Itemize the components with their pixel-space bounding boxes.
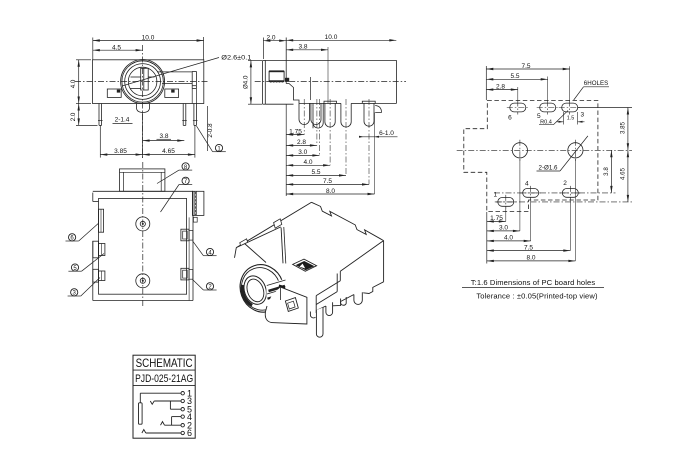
svg-text:Tolerance : ±0.05(Printed-to: Tolerance : ±0.05(Printed-top view) <box>476 292 598 301</box>
svg-text:Ø2.6±0.1: Ø2.6±0.1 <box>221 55 252 62</box>
svg-text:Ø4.0: Ø4.0 <box>242 75 249 89</box>
svg-text:2-1.4: 2-1.4 <box>115 117 130 124</box>
svg-text:5.5: 5.5 <box>311 169 320 176</box>
svg-text:T:1.6 Dimensions of PC boa: T:1.6 Dimensions of PC board holes <box>471 278 596 287</box>
svg-text:5.5: 5.5 <box>510 73 519 80</box>
svg-text:1.5: 1.5 <box>567 116 575 122</box>
svg-text:2.0: 2.0 <box>266 34 275 41</box>
svg-text:3.85: 3.85 <box>620 121 627 134</box>
svg-text:2-0.8: 2-0.8 <box>207 123 214 138</box>
svg-text:7.5: 7.5 <box>521 63 530 70</box>
svg-text:3.0: 3.0 <box>298 149 307 156</box>
svg-text:1.75: 1.75 <box>289 128 302 135</box>
svg-text:3.8: 3.8 <box>159 133 168 140</box>
svg-text:10.0: 10.0 <box>325 34 338 41</box>
svg-text:6-1.0: 6-1.0 <box>379 130 394 137</box>
svg-text:4.0: 4.0 <box>70 79 77 88</box>
svg-text:2: 2 <box>563 180 567 187</box>
svg-text:SCHEMATIC: SCHEMATIC <box>136 356 193 370</box>
svg-text:3.0: 3.0 <box>499 225 508 232</box>
svg-text:2.8: 2.8 <box>496 84 505 91</box>
svg-text:4.65: 4.65 <box>162 148 175 155</box>
svg-text:7.5: 7.5 <box>323 178 332 185</box>
svg-text:3.85: 3.85 <box>114 148 127 155</box>
svg-text:10.0: 10.0 <box>142 35 155 42</box>
svg-text:2.8: 2.8 <box>297 139 306 146</box>
svg-text:4: 4 <box>525 181 529 188</box>
svg-text:2-Ø1.6: 2-Ø1.6 <box>539 164 558 171</box>
svg-text:6HOLES: 6HOLES <box>584 80 608 87</box>
svg-text:3.8: 3.8 <box>603 167 610 176</box>
svg-text:2.0: 2.0 <box>70 112 77 121</box>
svg-text:4.65: 4.65 <box>620 167 627 180</box>
svg-text:8.0: 8.0 <box>526 255 535 262</box>
svg-text:4.0: 4.0 <box>303 159 312 166</box>
svg-text:4.0: 4.0 <box>504 235 513 242</box>
svg-text:3.8: 3.8 <box>298 44 307 51</box>
svg-text:7.5: 7.5 <box>524 244 533 251</box>
svg-text:1.75: 1.75 <box>490 215 503 222</box>
svg-text:4.5: 4.5 <box>112 44 121 51</box>
svg-text:PJD-025-21AG: PJD-025-21AG <box>135 373 193 385</box>
svg-text:6: 6 <box>187 428 192 438</box>
svg-text:8.0: 8.0 <box>326 188 335 195</box>
svg-text:3: 3 <box>580 112 584 119</box>
svg-text:6: 6 <box>508 115 512 122</box>
